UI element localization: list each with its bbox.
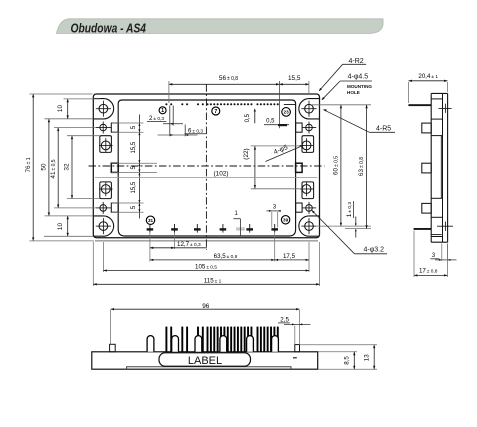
side view outline [430,93,432,242]
svg-text:39: 39 [283,217,289,222]
svg-text:13: 13 [363,354,370,361]
pin hole 4-phi3.2 [306,124,313,131]
mounting ear top-right [299,99,320,119]
svg-text:15,5: 15,5 [288,75,301,82]
dim 56+-0,8 [169,83,309,85]
terminal boss bottom-left [100,182,112,199]
dim 105+-0,5 [103,270,309,272]
svg-text:4-R5: 4-R5 [376,126,391,133]
svg-text:2,5: 2,5 [280,316,289,323]
side pin bottom [414,228,432,230]
svg-text:5: 5 [131,205,137,209]
side mounting hole bottom [437,225,453,227]
dim 17+-0,8 [414,274,448,276]
svg-text:105 ± 0,5: 105 ± 0,5 [195,264,217,271]
svg-text:63,5 ± 0,8: 63,5 ± 0,8 [214,253,238,260]
pin hole 4-phi3.2 [306,205,313,212]
pin number 31 [146,216,154,224]
svg-text:56 ± 0,8: 56 ± 0,8 [219,75,238,82]
svg-text:96: 96 [202,303,210,310]
baseplate bottom edge line [95,240,318,242]
svg-text:5: 5 [131,125,137,129]
dim 115+-1 [93,283,319,285]
dim chain 5/15,5 column line [138,115,140,219]
vertical centerline [205,84,207,250]
dim 1+-0,3 [355,217,357,225]
dim 96 [111,308,300,310]
side mounting hole top [439,107,452,109]
dim 15,5 top [279,83,282,85]
svg-text:10: 10 [57,105,64,113]
side view top notch [431,98,442,100]
side pin top [408,104,431,106]
svg-text:(22): (22) [243,148,250,159]
terminal hole 4-phi5 [101,141,110,150]
svg-text:23: 23 [284,110,290,115]
svg-text:(102): (102) [214,170,229,177]
hollow power pin [220,336,227,352]
pin number 39 [281,216,289,224]
svg-text:15,5: 15,5 [131,181,137,193]
dim 63+-0,8 [366,105,368,229]
hollow power pin [247,336,254,352]
dim 10 top [67,99,69,119]
inner cover outline [118,100,295,236]
mounting hole [305,222,314,231]
front view case [92,352,318,369]
svg-text:17 ± 0,8: 17 ± 0,8 [419,268,438,275]
tab right bottom [296,203,303,212]
terminal hole 4-phi5 [302,141,311,150]
hollow power pin [172,336,179,352]
dim 32 [71,136,73,199]
mounting hole [99,222,108,231]
svg-text:1: 1 [235,211,239,217]
side view lid [431,135,442,137]
svg-text:41 ± 0,5: 41 ± 0,5 [50,159,57,178]
svg-text:76 ± 1: 76 ± 1 [25,157,32,172]
dim 63,5+-0,8 [150,259,275,261]
tab right middle [296,163,303,172]
bottom row pin [274,224,276,233]
label box [159,353,251,366]
horizontal centerline [89,165,325,167]
left stub pin [110,344,116,352]
svg-text:1 ± 0,3: 1 ± 0,3 [346,202,353,218]
pin number 7 [212,107,220,115]
hollow power pin [195,336,202,352]
bottom row pin [174,224,176,233]
pin number 23 [282,108,291,117]
dim 1 (pin offset) [239,219,241,236]
svg-text:115 ± 1: 115 ± 1 [204,277,222,284]
svg-text:12,7 ± 0,3: 12,7 ± 0,3 [177,241,201,248]
side view bottom notch [431,216,442,218]
svg-text:17,5: 17,5 [283,253,296,260]
dim 60+-0,5 [340,105,342,226]
dim 20,4+-1 [409,80,448,82]
bottom row pin [222,224,224,233]
dim (22) [254,146,256,189]
bottom row pin [196,224,198,233]
tab left top [111,123,118,132]
dim 41+-0,5 [57,128,59,208]
bottom row pin [149,224,151,233]
small mark [293,357,297,358]
pin row end line [284,104,296,106]
pin hole 4-phi3.2 [100,124,107,131]
dim (102) [95,177,318,179]
svg-text:4-φ3.2: 4-φ3.2 [364,247,385,254]
svg-text:20,4 ± 1: 20,4 ± 1 [418,73,438,80]
svg-text:1: 1 [161,108,164,114]
alternate position pin (gray) [236,227,245,229]
tab left bottom [111,203,118,212]
svg-text:0,5: 0,5 [245,113,251,122]
mounting hole [305,104,314,113]
dim 8,5 [319,351,358,353]
header bar [57,19,384,34]
mounting ear top-left [93,99,113,119]
dim 50 [48,119,50,216]
svg-text:HOLE: HOLE [347,90,360,95]
terminal hole 4-phi5 [101,185,110,194]
top pin row (dots) [165,103,167,105]
tab right top [296,123,303,132]
svg-text:15,5: 15,5 [131,141,137,153]
svg-text:0,5: 0,5 [266,118,275,124]
svg-text:63 ± 0,8: 63 ± 0,8 [358,157,365,176]
pin number 1 [159,107,166,114]
svg-text:10: 10 [57,223,64,231]
terminal boss bottom-right [302,182,314,199]
svg-text:60 ± 0,5: 60 ± 0,5 [332,156,339,175]
terminal boss top-right [302,136,314,153]
svg-text:4-φ4.5: 4-φ4.5 [348,73,369,80]
svg-text:3: 3 [273,203,277,210]
terminal boss top-left [100,136,112,153]
dim 17,5 [275,259,309,261]
baseplate step [127,367,291,370]
svg-text:8,5: 8,5 [343,356,350,365]
dim chain ext lines [112,122,144,124]
hollow power pin [272,336,279,352]
svg-text:7: 7 [214,109,217,115]
mounting hole [99,104,108,113]
dim 10 bottom [67,216,69,236]
dim 13 [300,344,377,346]
bottom row pin [249,224,251,233]
pin hole 4-phi3.2 [100,205,107,212]
hollow power pin [147,336,154,352]
side bump middle [422,163,431,173]
terminal hole 4-phi5 [302,185,311,194]
dim 12,7+-0,3 [150,247,207,249]
side bump bottom [422,203,431,213]
svg-text:LABEL: LABEL [188,355,222,367]
mounting ear bottom-left [93,216,113,236]
svg-text:Obudowa - AS4: Obudowa - AS4 [71,21,147,36]
right stub pin [295,345,300,352]
dim 76+-1 [32,94,34,241]
ext line top right [311,104,371,106]
top view outer body outline [93,94,319,238]
ext lines bottom [149,233,151,262]
pin bars row (23 signal pins seen edge-on) [165,327,167,352]
svg-text:MOUNTING: MOUNTING [347,84,372,89]
mounting ear bottom-right [299,216,320,236]
svg-text:50: 50 [40,163,47,171]
svg-text:3: 3 [432,252,436,259]
tab left middle [111,163,118,172]
side bump top [422,123,431,133]
svg-text:31: 31 [148,218,154,223]
dim 0,5 vertical [254,112,256,124]
svg-text:32: 32 [64,163,71,171]
